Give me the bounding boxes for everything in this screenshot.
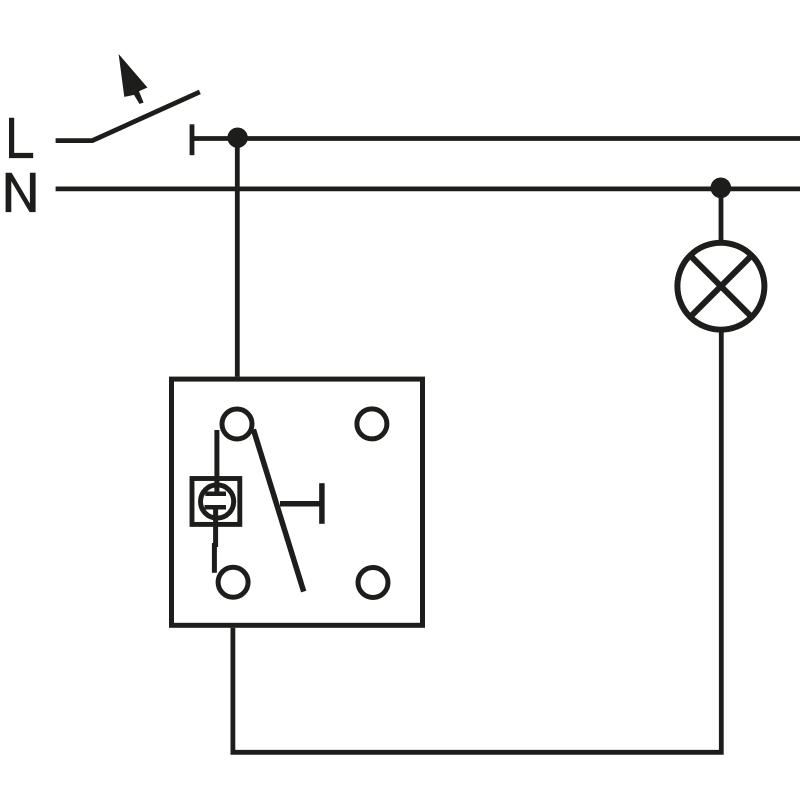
screw terminal lead upper (214, 430, 219, 494)
switch unit box (172, 379, 423, 625)
wire drop from L junction to switch unit (235, 139, 240, 377)
wire L bus (192, 136, 800, 141)
switch unit blade (253, 429, 303, 591)
node N junction (711, 178, 732, 199)
lamp E1 cross stroke 1 (688, 254, 753, 319)
screw terminal lead lower jog (212, 543, 217, 573)
screw terminal square (192, 479, 240, 525)
node L junction (227, 128, 247, 148)
label L (9, 118, 33, 158)
wire return loop: lamp bottom, down, left, up to box bottom (233, 332, 721, 752)
wire N drop to lamp (719, 189, 724, 241)
actuator T horizontal (280, 501, 322, 507)
screw terminal lead lower (213, 507, 218, 547)
screw terminal upper plate (205, 492, 226, 497)
label N (6, 173, 36, 212)
wire L feed + switch S blade (56, 92, 200, 141)
switch S fixed contact tick (190, 124, 195, 155)
terminal top-left (222, 409, 252, 439)
terminal bottom-left (218, 567, 248, 597)
terminal top-right (357, 409, 387, 439)
screw terminal lower plate (205, 505, 227, 510)
lamp E1 cross stroke 2 (688, 254, 753, 319)
actuator T vertical bar (319, 483, 325, 524)
lamp E1 circle (677, 243, 764, 330)
screw terminal circle (201, 485, 234, 518)
wire N bus (56, 186, 800, 191)
terminal bottom-right (358, 568, 388, 598)
mouse cursor pointer (119, 54, 148, 104)
